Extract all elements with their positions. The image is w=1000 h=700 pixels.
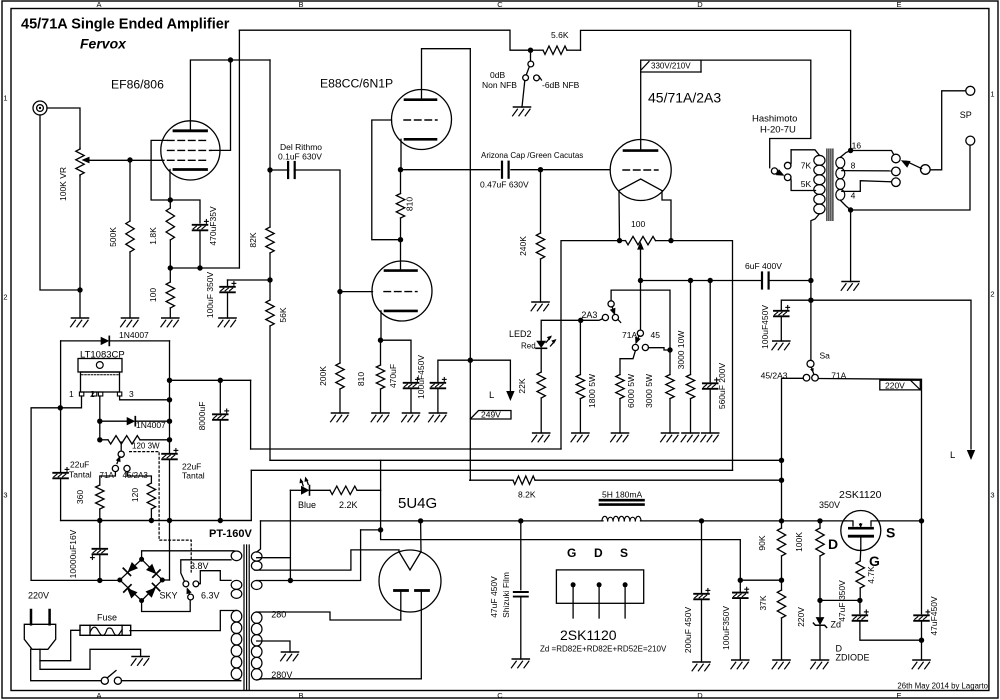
svg-text:5.6K: 5.6K xyxy=(551,30,569,40)
wire bridge bottom AC xyxy=(142,600,191,612)
wire 200uF bottom xyxy=(701,600,703,663)
wire link 740-781 xyxy=(740,579,781,581)
switch 2A3 arm xyxy=(612,307,614,311)
svg-text:B: B xyxy=(298,0,303,9)
NFB switch common contact xyxy=(528,61,534,67)
svg-text:0.1uF 630V: 0.1uF 630V xyxy=(278,152,322,162)
resistor 1800 5W xyxy=(579,321,581,375)
wire Sa 71A to flag xyxy=(818,379,921,520)
5U4G plate bar 1 xyxy=(395,589,408,592)
switch 2A3 contact L xyxy=(602,314,608,320)
node secondary bottom xyxy=(848,207,853,212)
capacitor 200uF450V xyxy=(694,593,709,595)
svg-text:10000uF16V: 10000uF16V xyxy=(68,529,78,578)
capacitor 8000uF xyxy=(213,413,228,415)
node rail diode2 xyxy=(167,419,172,424)
wire heater 580 lead xyxy=(257,580,291,582)
node primary bottom xyxy=(808,278,813,283)
OPT secondary top lead xyxy=(840,151,850,158)
wire cathode feedback node xyxy=(170,267,239,269)
wire primary bottom xyxy=(237,680,241,681)
resistor 810 lower xyxy=(380,340,382,365)
E88CC upper anode xyxy=(405,98,436,101)
bridge edge TL xyxy=(120,559,142,580)
svg-text:1.8K: 1.8K xyxy=(148,227,158,245)
wire diode2 to rail xyxy=(135,420,169,422)
primary selector arm xyxy=(777,172,781,174)
wire 100uF350V top xyxy=(227,280,229,285)
primary selector arm arrow xyxy=(776,169,785,176)
svg-text:560uF 200V: 560uF 200V xyxy=(717,363,727,410)
wire wiper to grid node xyxy=(89,159,164,161)
wire upper grid left xyxy=(372,120,401,240)
zener diode Zd 220V xyxy=(816,617,825,625)
node 100uF350V link xyxy=(738,578,743,583)
bridge diode TL bar xyxy=(123,568,130,575)
wire 2A3 common up xyxy=(611,290,670,347)
switch heater arm arrow xyxy=(187,587,192,594)
wire 45 contact xyxy=(648,348,670,350)
node bus480 tap xyxy=(779,478,784,483)
svg-text:G: G xyxy=(567,546,576,560)
svg-text:45/2A3: 45/2A3 xyxy=(761,371,788,381)
switch 2A3 arm arrow xyxy=(610,308,616,316)
node 120-3W left xyxy=(97,437,102,442)
node EF86 anode-screen xyxy=(228,57,233,62)
node 8000uF top xyxy=(218,378,223,383)
wire zener bottom xyxy=(819,625,821,660)
node bridge bottom xyxy=(139,598,144,603)
bridge diode TR xyxy=(146,564,157,575)
wire fil right up xyxy=(420,521,422,552)
svg-text:SP: SP xyxy=(960,110,972,120)
node source xyxy=(919,518,924,523)
wire Sa common stub xyxy=(810,300,812,360)
svg-text:5K: 5K xyxy=(801,179,812,189)
node 360 bottom xyxy=(97,518,102,523)
wire B+ bus corner xyxy=(469,479,472,481)
svg-text:L: L xyxy=(950,450,955,461)
switch 71A45 arm xyxy=(637,336,640,342)
svg-text:Hashimoto: Hashimoto xyxy=(752,114,797,125)
5U4G plate bar 2 xyxy=(416,589,429,592)
svg-text:Fervox: Fervox xyxy=(80,36,127,52)
wire riser 250 filament xyxy=(250,380,252,449)
wire B2 node to cap xyxy=(228,279,271,281)
PT winding 3.8V xyxy=(231,551,242,561)
svg-text:249V: 249V xyxy=(481,410,501,420)
LED2 emission arrow 1 xyxy=(547,336,552,341)
wire NFB switch to ground xyxy=(522,81,525,107)
tube V2a E88CC upper envelope xyxy=(392,90,452,150)
bridge edge BL xyxy=(120,580,142,601)
svg-text:100uF450V: 100uF450V xyxy=(760,305,770,349)
node rail fil+ xyxy=(167,378,172,383)
5U4G filament V xyxy=(399,552,421,570)
node rail 120-3W xyxy=(167,437,172,442)
bridge diode BR xyxy=(146,587,157,598)
svg-text:3: 3 xyxy=(3,491,7,500)
tube V1 EF86 envelope xyxy=(161,121,220,180)
switch 71A45 contact 45 xyxy=(642,344,648,350)
PT winding HT xyxy=(251,612,262,623)
wire SRPP out to cap xyxy=(401,169,500,171)
ground 200uF450V xyxy=(693,661,710,663)
wire anode to 82K xyxy=(269,60,271,170)
wire EF86 anode up xyxy=(190,60,270,131)
svg-text:6000 5W: 6000 5W xyxy=(626,374,636,408)
node 47uF merge xyxy=(919,638,924,643)
svg-text:Blue: Blue xyxy=(298,500,316,510)
wire jack shield down xyxy=(40,115,80,290)
plug body xyxy=(24,624,55,649)
wire 2.2K riser xyxy=(380,460,382,530)
wire zener drop xyxy=(819,600,821,616)
LED Blue emission arrow 2 xyxy=(300,478,304,483)
ground 100 xyxy=(162,317,179,319)
resistor 2.2K xyxy=(310,489,331,491)
switch fil arm xyxy=(117,457,120,464)
wire pin1 to return xyxy=(31,396,81,580)
OPT secondary bottom lead xyxy=(840,200,850,210)
switch Sa common xyxy=(807,360,814,367)
svg-text:S: S xyxy=(886,525,895,541)
wire 3.8V contact lead xyxy=(181,560,231,581)
svg-text:C: C xyxy=(497,0,503,9)
legend box GDS xyxy=(556,570,643,603)
capacitor 0.47uF 630V Arizona xyxy=(501,162,503,178)
svg-text:D: D xyxy=(594,546,603,560)
svg-text:240K: 240K xyxy=(518,236,528,256)
svg-text:Sa: Sa xyxy=(820,350,831,360)
wire heater 557 lead xyxy=(257,557,291,559)
ground 470uF xyxy=(403,412,420,414)
choke 5H 180mA coil xyxy=(602,516,608,521)
mosfet source internal xyxy=(871,521,878,526)
45 filament tent xyxy=(619,179,662,191)
wire 8000uF bottom xyxy=(219,420,221,521)
wire bridge top AC xyxy=(142,551,234,560)
wire riser 251 return xyxy=(61,470,252,520)
wire fil left feed xyxy=(561,241,620,449)
node lower cathode xyxy=(378,338,383,343)
wire rail LT1083 xyxy=(169,341,171,453)
node 82K-56K xyxy=(267,277,272,282)
wire 560uF bottom xyxy=(709,389,711,433)
wire 2A3 contact stub xyxy=(581,319,603,320)
node 380 junction xyxy=(378,527,383,532)
OPT primary top lead xyxy=(791,150,819,156)
wire 5K contact stub xyxy=(791,178,816,190)
wire Sa 45/2A3 down xyxy=(782,378,804,521)
svg-text:1800 5W: 1800 5W xyxy=(587,374,597,408)
svg-text:C: C xyxy=(497,691,503,700)
wire zener link xyxy=(820,599,860,601)
dotted gang link switch3 xyxy=(130,452,192,572)
svg-text:45/71A Single Ended Amplifier: 45/71A Single Ended Amplifier xyxy=(21,17,230,33)
svg-text:EF86/806: EF86/806 xyxy=(111,78,164,92)
resistor 5.6K xyxy=(531,49,544,51)
hum pot wiper arrow xyxy=(637,242,644,250)
wire gate to 4.7K xyxy=(859,549,862,561)
wire cathode bus xyxy=(641,280,762,282)
svg-text:4.7K: 4.7K xyxy=(866,566,876,584)
node wiper junction xyxy=(127,157,132,162)
resistor 6000 5W xyxy=(616,375,624,399)
resistor 56K xyxy=(269,280,271,300)
wire 16 tap to selector xyxy=(851,151,894,154)
legend pin D dot xyxy=(597,582,602,587)
ground 100uF350V xyxy=(732,659,749,661)
svg-text:5H 180mA: 5H 180mA xyxy=(602,490,642,500)
ground 100uF450V driver xyxy=(429,412,446,414)
node 120 bottom xyxy=(149,518,154,523)
node cathode bottom xyxy=(168,265,173,270)
wire diode2 line xyxy=(100,420,127,422)
svg-text:0dB: 0dB xyxy=(490,70,505,80)
svg-text:Shizuki Film: Shizuki Film xyxy=(501,572,511,618)
ground 810 lower xyxy=(372,412,389,414)
wire HT bottom to plate2 xyxy=(257,679,422,680)
svg-text:E: E xyxy=(896,0,901,9)
wire sw3 71A to 360 xyxy=(100,472,116,485)
node fil right xyxy=(668,238,673,243)
wire filament bus y449 xyxy=(251,448,561,450)
svg-text:90K: 90K xyxy=(757,535,767,550)
svg-text:A: A xyxy=(96,691,101,700)
capacitor 100uF450V psu xyxy=(774,310,789,312)
node rail pin3 xyxy=(167,397,172,402)
wire bypass cap bottom xyxy=(199,231,201,269)
wire shizuki drop xyxy=(520,521,522,590)
wire wiper down xyxy=(640,248,642,281)
svg-text:D: D xyxy=(697,691,703,700)
mosfet gate stem xyxy=(860,536,862,549)
primary tap contact 7K xyxy=(784,162,791,169)
flag 249V box xyxy=(470,411,511,420)
plug prong 1 xyxy=(30,610,33,624)
resistor 200K xyxy=(339,292,341,363)
svg-text:D: D xyxy=(828,536,838,552)
wire cathode to bypass cap xyxy=(170,200,200,223)
wire NFB top run xyxy=(239,30,530,50)
svg-text:2: 2 xyxy=(90,389,95,399)
svg-text:ZDIODE: ZDIODE xyxy=(836,653,870,663)
svg-text:100K: 100K xyxy=(794,532,804,552)
resistor 1.8K xyxy=(169,200,171,208)
switch Sa contact 71A xyxy=(812,374,819,381)
ground 22K xyxy=(533,432,550,434)
mains switch lever xyxy=(107,671,116,678)
node Sa-45 B+ tap xyxy=(779,518,784,523)
legend pin G lead xyxy=(572,585,574,618)
wire filament B line xyxy=(170,379,251,381)
wire 45 plate up xyxy=(640,72,642,151)
svg-text:L: L xyxy=(489,390,494,401)
resistor 120 xyxy=(147,483,155,509)
resistor 3000 10W xyxy=(690,281,692,375)
svg-text:H-20-7U: H-20-7U xyxy=(760,125,796,136)
wire sw3 stub xyxy=(120,442,122,451)
svg-text:45: 45 xyxy=(651,330,661,340)
svg-text:120 3W: 120 3W xyxy=(132,442,160,451)
PT winding 5V lower xyxy=(251,581,262,590)
primary tap contact 5K xyxy=(784,174,791,181)
wire 6uF to primary bottom xyxy=(768,280,811,282)
wire switch to primary xyxy=(122,680,241,682)
wire sw3 45 to 120 xyxy=(127,472,151,483)
wire secondary to SP jack2 xyxy=(851,145,970,210)
choke core bars xyxy=(600,499,644,502)
wire Del Rithmo out xyxy=(294,170,340,292)
LED Blue emission line 1 xyxy=(307,479,309,484)
svg-text:82K: 82K xyxy=(248,232,258,247)
PT winding primary xyxy=(231,610,242,622)
svg-text:3.8V: 3.8V xyxy=(190,561,209,571)
IC LT1083 pins xyxy=(79,392,83,396)
svg-text:1N4007: 1N4007 xyxy=(119,330,149,340)
node rail 520 xyxy=(167,518,172,523)
node NFB switch xyxy=(528,48,533,53)
svg-text:3000 10W: 3000 10W xyxy=(676,331,686,370)
resistor 810 upper xyxy=(400,170,402,194)
tube V3 45 envelope xyxy=(610,140,671,201)
svg-text:6.3V: 6.3V xyxy=(201,591,220,601)
svg-text:1N4007: 1N4007 xyxy=(136,420,166,430)
wire B+ riser PT xyxy=(257,521,261,552)
svg-text:220V: 220V xyxy=(28,591,49,601)
svg-text:120: 120 xyxy=(130,488,140,502)
E88CC upper grid dashed xyxy=(404,119,437,121)
capacitor 10000uF16V xyxy=(93,548,108,550)
bridge diode BL xyxy=(127,588,138,599)
svg-text:200K: 200K xyxy=(318,366,328,386)
resistor 90K xyxy=(781,521,783,528)
wire upper anode to B+ xyxy=(422,49,471,100)
node secondary 16 tap xyxy=(848,148,853,153)
wire 580 lead to riser xyxy=(290,530,360,581)
wire fil right feed xyxy=(671,241,733,471)
svg-text:26th May 2014 by Lagarto: 26th May 2014 by Lagarto xyxy=(897,682,988,691)
node 8000uF bottom xyxy=(218,518,223,523)
svg-text:100K VR: 100K VR xyxy=(58,167,68,201)
svg-text:-6dB NFB: -6dB NFB xyxy=(542,80,580,90)
resistor 360 xyxy=(96,485,104,509)
wire pot bottom xyxy=(79,176,81,318)
svg-text:Fuse: Fuse xyxy=(97,613,117,623)
wire 5.6K to OPT 16 xyxy=(581,30,851,150)
node 10000uF minus xyxy=(97,578,102,583)
diode 1N4007 top xyxy=(101,337,110,345)
svg-text:22K: 22K xyxy=(517,378,527,393)
speaker selector common xyxy=(921,165,931,175)
svg-text:7K: 7K xyxy=(801,161,812,171)
LED2 emission line 1 xyxy=(546,337,551,342)
svg-text:280: 280 xyxy=(271,610,286,620)
capacitor 47uF350V xyxy=(853,614,868,616)
wire L right branch xyxy=(811,300,971,449)
svg-text:D: D xyxy=(697,0,703,9)
wire g3 loop xyxy=(151,140,170,200)
svg-text:47uF 350V: 47uF 350V xyxy=(837,580,847,622)
wire diode1 line xyxy=(61,340,101,342)
node driver B+ 249V xyxy=(468,358,473,363)
plug prong 2 xyxy=(48,610,51,624)
wire rail lower xyxy=(169,460,171,581)
PT core xyxy=(243,545,245,690)
wire bus 470 filament return xyxy=(251,469,732,471)
NFB switch contact 0dB xyxy=(523,75,529,81)
wire blue LED left xyxy=(290,489,301,491)
fuse body xyxy=(80,625,131,635)
PT winding 5V upper xyxy=(251,552,262,561)
EF86 grid g1 dashed xyxy=(168,159,208,161)
ground 47uF450V xyxy=(913,659,930,661)
wire 6.3V contact lead xyxy=(199,571,231,584)
wire bridge right DC+ xyxy=(162,579,169,581)
ground 3000 5W xyxy=(662,432,679,434)
wire pin2 down xyxy=(99,396,101,440)
wire pin3 out xyxy=(120,396,170,400)
svg-text:E: E xyxy=(896,691,901,700)
wire 4 tap xyxy=(842,181,892,192)
speaker selector contact 4 xyxy=(892,178,901,187)
speaker selector arm arrow xyxy=(901,160,911,168)
capacitor 100uF450V driver xyxy=(431,382,446,384)
wire 100uF350V bottom xyxy=(739,598,741,660)
node 200uF tap xyxy=(699,518,704,523)
svg-text:100uF 350V: 100uF 350V xyxy=(205,272,215,319)
svg-text:220V: 220V xyxy=(796,607,806,627)
NFB switch contact -6dB xyxy=(534,75,540,81)
capacitor 22uF Tantal right xyxy=(162,453,177,455)
svg-text:4: 4 xyxy=(851,191,856,201)
svg-text:5U4G: 5U4G xyxy=(398,495,437,512)
svg-text:350V: 350V xyxy=(819,500,840,510)
resistor 100 xyxy=(169,268,171,282)
node bridge top xyxy=(139,557,144,562)
wire 47uF450V drop xyxy=(921,521,923,614)
svg-text:6uF 400V: 6uF 400V xyxy=(745,261,782,271)
wire left drop xyxy=(60,341,62,473)
svg-text:E88CC/6N1P: E88CC/6N1P xyxy=(320,77,393,91)
ground shizuki xyxy=(512,658,529,660)
node 4.7K bottom xyxy=(857,598,862,603)
bridge edge BR xyxy=(142,580,163,601)
svg-text:1: 1 xyxy=(3,94,7,103)
EF86 anode plate xyxy=(174,129,207,132)
svg-text:Non NFB: Non NFB xyxy=(482,80,517,90)
node 45 contact bus xyxy=(667,347,672,352)
wire 10000uF bottom xyxy=(99,555,101,581)
wire 100uF450V psu bottom xyxy=(780,317,782,341)
resistor 82K xyxy=(269,170,271,227)
LED Blue emission arrow 1 xyxy=(305,477,309,482)
svg-text:3: 3 xyxy=(129,389,134,399)
NFB switch stub xyxy=(530,50,532,61)
svg-text:56K: 56K xyxy=(278,307,288,322)
wire fil left to 5V xyxy=(255,550,400,570)
ground NFB switch xyxy=(514,106,531,108)
switch 71A45 arm arrow xyxy=(635,337,641,345)
capacitor 100uF 350V xyxy=(220,286,235,288)
svg-text:22uF: 22uF xyxy=(70,460,89,470)
svg-text:8.2K: 8.2K xyxy=(518,490,536,500)
node bypass bottom xyxy=(197,265,202,270)
node bridge right xyxy=(160,578,165,583)
wire 71A contact to 6000 xyxy=(620,351,635,375)
wire 8000uF drop xyxy=(219,380,221,412)
